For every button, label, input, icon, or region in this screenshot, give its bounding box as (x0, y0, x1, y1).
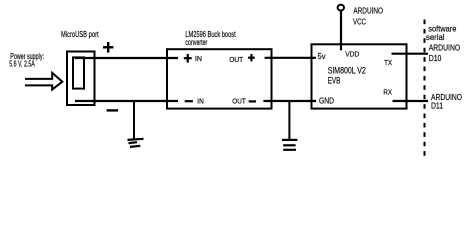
svg-text:RX: RX (383, 88, 392, 97)
SIM800L V2 EVB box U2 (312, 44, 407, 108)
wire: RX to Arduino D11 (393, 100, 429, 102)
svg-text:SIM800L V2: SIM800L V2 (328, 66, 366, 76)
svg-text:ARDUINO: ARDUINO (429, 43, 461, 53)
ground symbol left (128, 139, 144, 147)
wire: USB - to LM2596 -IN (75, 100, 178, 102)
svg-text:IN: IN (195, 56, 202, 63)
svg-text:EVB: EVB (328, 75, 341, 85)
wire: ground drop from GND rail (288, 101, 290, 140)
svg-text:converter: converter (185, 38, 207, 47)
svg-text:VCC: VCC (353, 16, 366, 26)
wire: USB + to LM2596 +IN (75, 57, 178, 59)
pin label - IN (185, 100, 193, 102)
svg-text:VDD: VDD (345, 49, 360, 58)
svg-text:OUT: OUT (229, 57, 244, 64)
svg-text:OUT: OUT (232, 99, 246, 106)
svg-text:5v: 5v (318, 52, 326, 61)
ground symbol right (282, 140, 297, 150)
terminal circle Arduino VCC (338, 5, 344, 11)
wire: VDD pin to Arduino VCC (340, 11, 342, 51)
label - on USB output (107, 109, 119, 111)
svg-text:D11: D11 (431, 101, 443, 111)
svg-text:MicroUSB port: MicroUSB port (61, 30, 99, 39)
svg-text:D10: D10 (429, 53, 442, 63)
svg-text:serial: serial (426, 32, 445, 42)
label + on USB output (103, 42, 113, 53)
pin label + IN (184, 54, 192, 63)
svg-text:GND: GND (319, 96, 334, 105)
wire: TX to Arduino D10 (392, 53, 429, 55)
MicroUSB port outer body (67, 52, 95, 106)
wire: ground drop from - rail (133, 101, 135, 141)
wire: LM2596 OUT+ to SIM800L 5v (265, 57, 316, 59)
svg-text:5.6 V, 2.5A: 5.6 V, 2.5A (9, 60, 35, 69)
LM2596 buck boost converter box U1 (167, 49, 272, 108)
power supply arrow (25, 73, 62, 90)
svg-text:TX: TX (384, 58, 392, 67)
svg-text:ARDUINO: ARDUINO (353, 6, 383, 16)
MicroUSB port inner connector (73, 57, 84, 88)
svg-text:IN: IN (197, 98, 203, 105)
software serial boundary (dashed) (424, 20, 426, 157)
wire: LM2596 OUT- to SIM800L GND (263, 100, 316, 102)
